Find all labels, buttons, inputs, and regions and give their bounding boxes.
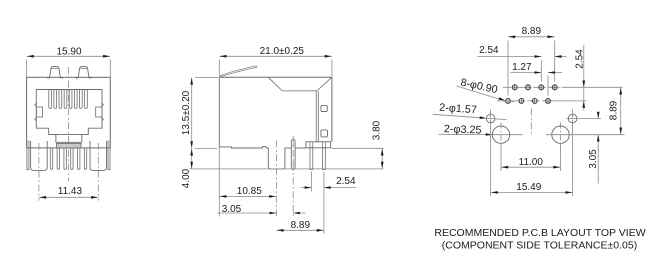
svg-text:8.89: 8.89	[291, 220, 311, 231]
dim 4.00	[181, 148, 193, 188]
svg-text:8.89: 8.89	[609, 100, 620, 120]
dim 1.27 pcb	[511, 62, 563, 96]
dim 8.89 side	[276, 220, 324, 232]
svg-text:3.05: 3.05	[222, 204, 242, 215]
front view body outline	[27, 77, 111, 148]
front left mounting post	[31, 141, 48, 170]
side solder pins	[310, 148, 325, 170]
svg-text:4.00: 4.00	[181, 168, 192, 188]
side left edge extension	[218, 147, 220, 217]
dim 10.85 post offset	[219, 186, 276, 198]
front jack opening	[36, 90, 102, 143]
svg-text:8.89: 8.89	[522, 26, 542, 37]
side latch arm	[220, 66, 258, 77]
front contact pins	[50, 148, 86, 169]
svg-text:10.85: 10.85	[237, 186, 262, 197]
dim 21.0±0.25 depth	[219, 46, 332, 77]
label 8-phi0.90 with leader	[457, 77, 515, 102]
svg-text:2.54: 2.54	[479, 45, 499, 56]
dim 11.43 post spacing	[39, 186, 98, 199]
svg-text:11.00: 11.00	[519, 157, 544, 168]
dim 15.49 pcb	[491, 126, 573, 197]
label 2-phi1.57 with leader	[433, 102, 507, 120]
pcb 2x phi3.25 holes	[492, 126, 569, 143]
pcb 2x phi1.57 holes	[486, 113, 577, 125]
dim 11.00 pcb	[501, 144, 561, 171]
front view centerline	[68, 67, 70, 181]
side post centerline	[276, 141, 278, 217]
svg-text:1.27: 1.27	[512, 62, 532, 73]
dim 8.89 pcb top	[508, 26, 555, 96]
front latch slot floor bar	[57, 143, 82, 148]
svg-text:11.43: 11.43	[58, 186, 83, 197]
front left side notch	[35, 103, 43, 121]
side wall window lower	[321, 130, 328, 137]
front 8 contact slots	[49, 90, 88, 109]
pcb center dashed line	[530, 109, 532, 137]
side inner wall	[316, 91, 318, 142]
dim 2.54 pcb top	[478, 45, 567, 82]
pcb hole centerlines vertical	[491, 110, 573, 148]
svg-text:3.80: 3.80	[371, 120, 382, 140]
side pcb standoff flange	[306, 142, 331, 148]
dim 2.54 pin pitch side	[301, 172, 356, 234]
dim 2.54 pcb right vertical	[575, 45, 586, 111]
side locating pin centerline	[292, 136, 294, 216]
label 2-phi3.25 with leader	[439, 123, 493, 136]
pcb seating line	[189, 168, 383, 170]
dim 3.80 pin length	[332, 120, 384, 169]
svg-text:15.49: 15.49	[516, 182, 541, 193]
svg-text:21.0±0.25: 21.0±0.25	[260, 46, 305, 57]
pcb big hole row line	[489, 134, 523, 136]
side wall window upper	[321, 105, 327, 111]
side locating pin (stadium)	[291, 139, 295, 169]
pcb small hole row line	[566, 118, 601, 120]
svg-text:2.54: 2.54	[575, 49, 586, 69]
front left shield tab	[27, 140, 29, 169]
dim 8.89 pcb right vertical	[609, 87, 622, 134]
svg-text:15.90: 15.90	[56, 47, 81, 58]
svg-text:13.5±0.20: 13.5±0.20	[181, 90, 192, 135]
caption text	[434, 227, 645, 252]
side view body outline	[219, 77, 332, 148]
dim 15.90 front width	[27, 47, 111, 77]
side top bevel	[269, 78, 332, 91]
front post centerlines	[38, 143, 40, 201]
dim 13.5±0.20 height	[181, 77, 219, 148]
svg-text:(COMPONENT SIDE TOLERANCE±0.05: (COMPONENT SIDE TOLERANCE±0.05)	[442, 240, 637, 252]
svg-text:3.05: 3.05	[588, 149, 599, 169]
front top latch bump left	[47, 67, 63, 79]
pcb pin holes 8x phi0.90	[505, 84, 558, 104]
front top latch bump right	[76, 67, 92, 79]
front right side notch	[96, 103, 104, 121]
dim 3.05 pin offset	[217, 204, 306, 215]
front right mounting post	[90, 141, 107, 170]
svg-text:RECOMMENDED P.C.B LAYOUT TOP V: RECOMMENDED P.C.B LAYOUT TOP VIEW	[434, 227, 645, 239]
svg-text:2-φ3.25: 2-φ3.25	[444, 123, 482, 136]
svg-text:2.54: 2.54	[336, 176, 356, 187]
front right shield tab	[108, 140, 110, 169]
pcb row centerlines	[497, 87, 623, 101]
dim 3.05 pcb right vertical	[588, 112, 599, 184]
side mounting post	[268, 148, 285, 169]
